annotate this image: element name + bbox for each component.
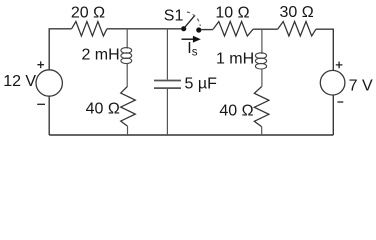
wire L2 to R5: [261, 68, 263, 86]
svg-text:Is: Is: [187, 40, 197, 58]
svg-text:7 V: 7 V: [349, 78, 373, 95]
wire V2 bottom terminal down: [332, 95, 334, 135]
svg-text:20 Ω: 20 Ω: [71, 5, 105, 22]
wire bottom-left up to V1 bottom terminal: [48, 96, 50, 135]
wire R3 to top-right corner down to V2: [316, 29, 333, 70]
wire top node down to L1: [126, 29, 128, 49]
voltage source V2 7 V: [320, 62, 345, 102]
svg-text:10 Ω: 10 Ω: [215, 5, 249, 22]
svg-text:S1: S1: [164, 8, 184, 25]
svg-text:5 µF: 5 µF: [185, 76, 218, 93]
resistor R3 30 ohm: [278, 22, 316, 37]
switch S1 dashed travel arc: [187, 12, 200, 26]
wire R5 to bottom bus: [261, 127, 263, 135]
wire bottom bus: [49, 134, 333, 136]
switch S1 blade: [184, 15, 195, 28]
svg-text:2 mH: 2 mH: [81, 47, 119, 64]
wire top node down to C1: [166, 29, 168, 80]
svg-text:1 mH: 1 mH: [216, 51, 254, 68]
svg-text:12 V: 12 V: [3, 73, 36, 90]
resistor R4 40 ohm: [121, 86, 136, 126]
wire R2 to R3: [253, 28, 278, 30]
resistor R5 40 ohm: [254, 87, 269, 127]
wire top node down to L2: [261, 29, 263, 54]
wire R1 to switch pivot: [107, 28, 181, 30]
switch S1 throw contact dot: [196, 27, 201, 32]
wire L1 to R4: [126, 63, 128, 86]
current arrow Is: [182, 38, 194, 40]
voltage source V1 12 V: [36, 61, 62, 104]
resistor R1 20 ohm: [72, 22, 107, 37]
svg-text:40 Ω: 40 Ω: [219, 102, 253, 119]
wire V1 top terminal up and right to R1: [49, 29, 71, 70]
svg-text:40 Ω: 40 Ω: [86, 100, 120, 117]
wire C1 to bottom bus: [166, 89, 168, 135]
wire switch throw to R2: [201, 29, 213, 31]
inductor L1 2 mH: [121, 48, 132, 64]
wire R4 to bottom bus: [127, 126, 129, 135]
resistor R2 10 ohm: [213, 22, 253, 37]
inductor L2 1 mH: [255, 53, 266, 69]
capacitor C1 plates: [154, 80, 181, 82]
switch S1 pivot contact dot: [181, 26, 186, 31]
svg-text:30 Ω: 30 Ω: [279, 4, 313, 21]
